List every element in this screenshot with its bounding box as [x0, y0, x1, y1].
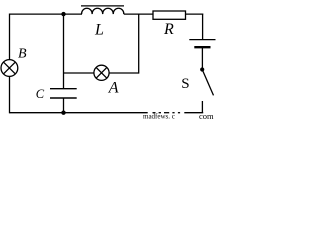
svg-text:S: S	[181, 76, 189, 92]
resistor R	[153, 11, 186, 19]
wire bottom-right solid segment	[184, 112, 203, 114]
wire top-right segment	[186, 13, 204, 15]
wire top between L and R	[124, 13, 153, 15]
svg-text:R: R	[163, 21, 174, 38]
node junction dot top (L/A/C branch node)	[61, 12, 65, 16]
wire battery to switch	[201, 47, 203, 69]
svg-text:madfews. c: madfews. c	[143, 113, 175, 121]
wire capacitor to bottom node	[63, 98, 65, 113]
switch S blade	[202, 70, 213, 96]
svg-text:A: A	[108, 80, 119, 97]
wire bottom dashed segment	[153, 112, 181, 114]
wire middle vertical (top node through A branch to capacitor)	[63, 14, 65, 89]
wire left border upper (top-left corner to lamp B)	[9, 14, 11, 60]
wire bottom-left segment	[10, 112, 148, 114]
switch fixed terminal stub	[201, 101, 203, 113]
switch S pivot dot	[200, 67, 204, 71]
node junction dot bottom (C to bottom wire)	[61, 111, 65, 115]
inductor L	[81, 6, 124, 14]
capacitor C bottom plate	[50, 97, 77, 99]
wire left border lower (lamp B to bottom-left corner)	[9, 76, 11, 113]
svg-text:com: com	[199, 111, 214, 120]
svg-text:C: C	[36, 87, 45, 101]
battery positive plate (long)	[189, 39, 215, 41]
lamp A	[94, 65, 109, 80]
wire A branch horizontal left	[64, 72, 95, 74]
wire top-left segment	[10, 13, 83, 15]
svg-text:L: L	[94, 21, 104, 38]
lamp B	[1, 60, 18, 77]
wire A branch horizontal right	[109, 72, 139, 74]
wire right border top (to battery)	[202, 14, 204, 40]
wire A branch vertical right	[138, 14, 140, 74]
battery negative plate (short thick)	[194, 46, 210, 48]
capacitor C top plate	[50, 88, 77, 90]
svg-text:B: B	[18, 47, 27, 62]
